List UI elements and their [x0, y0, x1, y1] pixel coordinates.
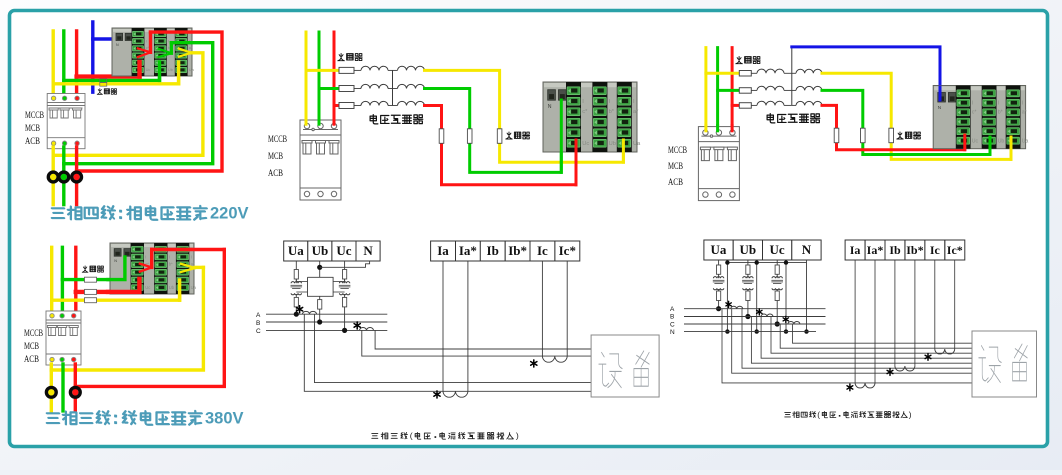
svg-text:Ic*: Ic*	[559, 243, 576, 258]
svg-text:Ub: Ub	[739, 242, 756, 257]
svg-text:N: N	[116, 43, 119, 47]
svg-text:220V: 220V	[210, 205, 249, 223]
svg-text:MCB: MCB	[268, 152, 283, 162]
svg-text:Ub: Ub	[998, 138, 1005, 144]
svg-text:Uc: Uc	[146, 67, 151, 72]
svg-text:Ib: Ib	[487, 243, 499, 258]
svg-text:(: (	[817, 409, 820, 419]
svg-text:MCCB: MCCB	[668, 146, 687, 156]
svg-text:I: I	[1022, 101, 1023, 107]
svg-text:I: I	[168, 38, 169, 43]
svg-text:Ua: Ua	[1022, 138, 1029, 144]
svg-text:Ua: Ua	[288, 243, 304, 258]
svg-text:Ic*: Ic*	[947, 243, 963, 257]
svg-text:Ia*: Ia*	[459, 243, 477, 258]
svg-text:I: I	[191, 254, 192, 259]
svg-text:Ib*: Ib*	[508, 243, 527, 258]
svg-text:C: C	[670, 321, 675, 328]
svg-text:Ub: Ub	[169, 285, 175, 290]
svg-text:c*: c*	[582, 109, 588, 115]
svg-text:Ib*: Ib*	[906, 243, 923, 257]
svg-text:B: B	[670, 314, 674, 321]
svg-text:ACB: ACB	[268, 169, 283, 179]
svg-text:b*: b*	[609, 109, 615, 115]
svg-text:): )	[909, 409, 912, 419]
svg-text:Uc: Uc	[145, 285, 150, 290]
svg-text:Ub: Ub	[168, 67, 173, 72]
svg-text:a*: a*	[1022, 109, 1027, 115]
svg-text:MCCB: MCCB	[268, 135, 287, 145]
svg-text:MCB: MCB	[668, 162, 683, 172]
svg-text:C: C	[256, 328, 261, 335]
svg-text:ACB: ACB	[24, 355, 39, 365]
svg-text:MCCB: MCCB	[24, 329, 43, 339]
svg-text:N: N	[548, 104, 552, 110]
svg-text:Ua: Ua	[189, 67, 195, 72]
svg-text:ACB: ACB	[25, 137, 40, 147]
svg-text:N: N	[363, 243, 373, 258]
svg-text:(: (	[410, 431, 413, 441]
svg-text:N: N	[938, 105, 941, 110]
svg-text:Ic: Ic	[930, 243, 941, 257]
svg-text:I: I	[998, 101, 999, 107]
svg-text:a*: a*	[633, 109, 639, 115]
svg-text:Ub: Ub	[312, 243, 329, 258]
svg-text:A: A	[670, 306, 675, 313]
svg-text:Ib: Ib	[889, 243, 901, 257]
svg-text:A: A	[256, 312, 261, 319]
svg-text:Ia: Ia	[437, 243, 449, 258]
svg-text:Ub: Ub	[609, 141, 616, 147]
svg-text:I: I	[972, 101, 973, 107]
svg-text:N: N	[114, 259, 117, 263]
svg-text:b*: b*	[998, 109, 1003, 115]
svg-text:): )	[516, 431, 519, 441]
svg-text:a*: a*	[189, 45, 193, 50]
svg-text:MCB: MCB	[24, 342, 39, 352]
svg-text:N: N	[802, 242, 812, 257]
svg-text:I: I	[169, 254, 170, 259]
svg-text:Ia*: Ia*	[867, 243, 884, 257]
svg-text:Uc: Uc	[972, 138, 979, 144]
svg-text:Ua: Ua	[191, 285, 197, 290]
svg-text:MCB: MCB	[25, 124, 40, 134]
svg-text:Uc: Uc	[582, 141, 589, 147]
svg-text:N: N	[670, 329, 675, 336]
svg-text:I: I	[146, 38, 147, 43]
svg-text:ACB: ACB	[668, 178, 683, 188]
svg-text:Ua: Ua	[633, 141, 641, 147]
svg-text:I: I	[145, 254, 146, 259]
svg-text:Ua: Ua	[711, 242, 727, 257]
svg-text:Ic: Ic	[537, 243, 548, 258]
svg-text:B: B	[256, 320, 260, 327]
svg-text:MCCB: MCCB	[25, 111, 44, 121]
svg-text:b*: b*	[169, 261, 173, 266]
svg-text:c*: c*	[972, 109, 977, 115]
svg-text:Uc: Uc	[336, 243, 351, 258]
svg-text:Uc: Uc	[770, 242, 785, 257]
svg-text:Ia: Ia	[850, 243, 861, 257]
svg-text:380V: 380V	[205, 410, 244, 428]
